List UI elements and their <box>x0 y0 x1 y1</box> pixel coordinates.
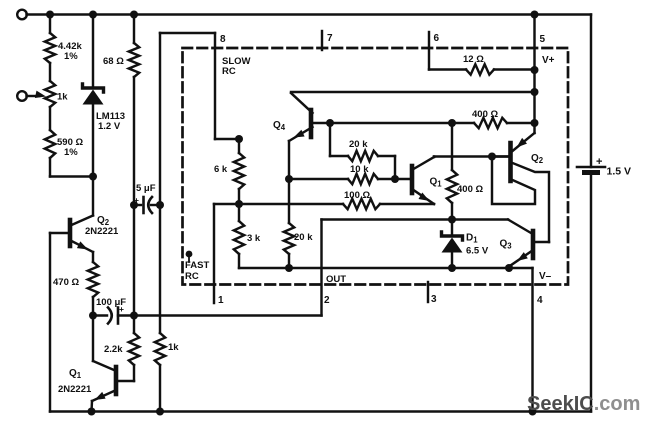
svg-text:10 k: 10 k <box>350 164 369 175</box>
svg-text:2N2221: 2N2221 <box>58 384 92 395</box>
svg-text:5: 5 <box>540 34 546 45</box>
svg-text:20 k: 20 k <box>349 139 368 150</box>
svg-text:2N2221: 2N2221 <box>85 226 119 237</box>
svg-text:Q1: Q1 <box>430 177 443 189</box>
svg-text:400 Ω: 400 Ω <box>457 184 483 195</box>
svg-text:3: 3 <box>431 294 437 305</box>
svg-text:6.5 V: 6.5 V <box>466 246 489 257</box>
svg-text:FAST: FAST <box>185 260 209 271</box>
svg-text:Q3: Q3 <box>500 239 513 251</box>
svg-text:2: 2 <box>324 295 330 306</box>
svg-text:1k: 1k <box>168 342 179 353</box>
svg-text:7: 7 <box>327 33 333 44</box>
svg-text:5 μF: 5 μF <box>136 183 156 194</box>
svg-text:20 k: 20 k <box>294 232 313 243</box>
svg-text:Q1: Q1 <box>69 368 82 380</box>
svg-text:6: 6 <box>434 33 440 44</box>
svg-text:8: 8 <box>220 34 226 45</box>
svg-text:100 Ω: 100 Ω <box>344 190 370 201</box>
svg-text:1: 1 <box>218 295 224 306</box>
svg-text:4: 4 <box>537 295 543 306</box>
svg-text:RC: RC <box>222 66 236 77</box>
svg-text:400 Ω: 400 Ω <box>472 109 498 120</box>
svg-text:1%: 1% <box>64 51 78 62</box>
svg-text:V+: V+ <box>542 55 555 66</box>
svg-text:OUT: OUT <box>326 274 346 285</box>
svg-text:+: + <box>596 156 602 168</box>
svg-text:1k: 1k <box>57 92 68 103</box>
svg-text:V–: V– <box>539 271 552 282</box>
svg-text:+: + <box>119 304 124 314</box>
svg-text:1.5 V: 1.5 V <box>607 166 632 178</box>
svg-text:SeekIC.com: SeekIC.com <box>527 393 640 415</box>
svg-text:12 Ω: 12 Ω <box>463 54 484 65</box>
svg-text:470 Ω: 470 Ω <box>53 277 79 288</box>
svg-text:2.2k: 2.2k <box>104 344 123 355</box>
svg-text:1.2 V: 1.2 V <box>98 121 121 132</box>
svg-text:68 Ω: 68 Ω <box>103 56 124 67</box>
svg-text:6 k: 6 k <box>214 164 228 175</box>
svg-text:+: + <box>134 195 139 205</box>
svg-text:3 k: 3 k <box>247 233 261 244</box>
svg-text:Q4: Q4 <box>273 120 286 132</box>
svg-text:1%: 1% <box>64 147 78 158</box>
svg-text:Q2: Q2 <box>531 153 544 165</box>
svg-text:RC: RC <box>185 271 199 282</box>
svg-text:D1: D1 <box>466 233 478 245</box>
